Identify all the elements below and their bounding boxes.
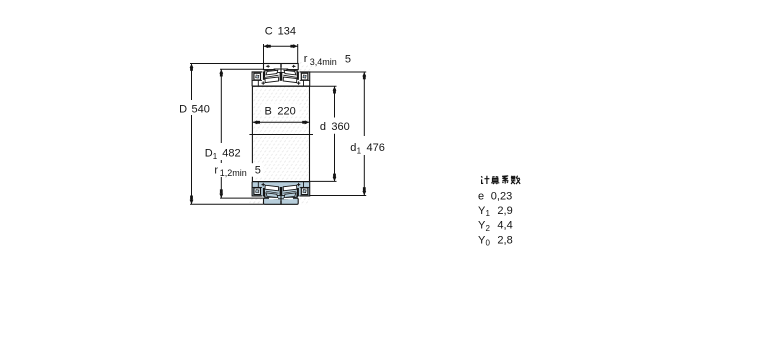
char xi bbox=[502, 176, 508, 184]
center rib bbox=[274, 69, 287, 72]
lube hole bbox=[280, 63, 281, 67]
watermark hatch (bottom-left pocket) bbox=[250, 199, 264, 204]
svg-text:540: 540 bbox=[192, 103, 210, 115]
plus mark left bbox=[262, 81, 265, 84]
center rib bottom bbox=[274, 195, 287, 198]
svg-text:2,8: 2,8 bbox=[497, 234, 512, 246]
svg-text:1: 1 bbox=[486, 209, 491, 218]
cage wedge right bottom bbox=[296, 188, 299, 197]
label 5 (bottom) bbox=[248, 163, 264, 177]
D ext line bottom bbox=[190, 203, 264, 205]
C arrows bbox=[264, 44, 269, 48]
label r 3,4min bbox=[303, 52, 353, 65]
cage mid line right bbox=[283, 75, 297, 77]
C dim line bbox=[264, 45, 298, 47]
d dim line bbox=[334, 86, 336, 117]
svg-text:0: 0 bbox=[486, 239, 491, 248]
bore bottom line bbox=[252, 181, 310, 183]
B dim line bbox=[253, 121, 310, 123]
d1 arrows bbox=[362, 72, 366, 77]
D1 ext line top bbox=[220, 68, 264, 70]
svg-text:B: B bbox=[265, 105, 272, 117]
svg-text:220: 220 bbox=[277, 105, 295, 117]
d1 dim line bbox=[363, 72, 365, 136]
svg-text:360: 360 bbox=[331, 121, 349, 133]
section silhouette white bbox=[252, 64, 309, 87]
lube hole bottom bbox=[280, 201, 281, 205]
char ji bbox=[481, 176, 489, 184]
D1 ext line bottom bbox=[220, 197, 263, 199]
d1 ext line bottom bbox=[310, 195, 367, 197]
d ext line bottom bbox=[310, 180, 337, 182]
header 计算系数 (drawn strokes) bbox=[481, 176, 520, 185]
svg-text:0,23: 0,23 bbox=[491, 190, 512, 202]
svg-text:r: r bbox=[304, 53, 308, 65]
svg-text:1,2min: 1,2min bbox=[220, 168, 247, 178]
svg-text:D: D bbox=[205, 148, 213, 160]
svg-text:5: 5 bbox=[255, 165, 261, 177]
plus mark left bottom bbox=[262, 183, 265, 186]
cage wedge left bottom bbox=[263, 188, 266, 197]
side box right bottom bbox=[300, 182, 310, 196]
plus mark right bbox=[297, 81, 300, 84]
cage mid line left bbox=[265, 75, 279, 77]
svg-text:D: D bbox=[179, 103, 187, 115]
white dash band bbox=[269, 198, 293, 200]
label D1 482 bbox=[203, 144, 243, 161]
B arrows bbox=[253, 120, 258, 124]
outer ring bbox=[264, 64, 299, 70]
svg-text:3,4min: 3,4min bbox=[310, 57, 337, 67]
D1 arrows bbox=[219, 69, 223, 74]
C ext line left bbox=[263, 44, 265, 64]
center cage bar bbox=[280, 72, 283, 80]
side box left bottom bbox=[252, 182, 262, 196]
section silhouette blue bbox=[252, 182, 309, 205]
ring raceway slants bottom bbox=[264, 197, 298, 199]
side box left bbox=[252, 72, 262, 86]
ring hatch arrow right bbox=[292, 65, 295, 68]
C ext line right bbox=[297, 44, 299, 64]
label D 540 bbox=[177, 100, 212, 115]
label d 360 bbox=[317, 118, 353, 133]
char suan bbox=[491, 177, 499, 185]
D1 dim line bbox=[220, 69, 222, 143]
upper roller left bbox=[266, 70, 278, 75]
center cage bar bottom bbox=[280, 187, 283, 195]
svg-text:134: 134 bbox=[278, 26, 296, 38]
lower roller left (mirror upper) bbox=[266, 193, 278, 198]
label r 1,2min bbox=[212, 163, 250, 178]
ring hatch arrow left bbox=[267, 65, 270, 68]
svg-text:2: 2 bbox=[486, 224, 491, 233]
cage mid line bottom bbox=[266, 191, 279, 193]
outer ring bottom bbox=[264, 198, 299, 204]
D ext line top bbox=[190, 63, 264, 65]
ring raceway slants bbox=[264, 69, 298, 71]
svg-text:476: 476 bbox=[367, 142, 385, 154]
cage wedge right bbox=[296, 71, 299, 80]
D arrows bbox=[190, 64, 194, 69]
side box right bbox=[300, 72, 310, 86]
centerline bbox=[249, 134, 313, 136]
svg-text:1: 1 bbox=[357, 146, 362, 155]
svg-text:482: 482 bbox=[222, 148, 240, 160]
char shu bbox=[511, 176, 520, 184]
upper roller right bbox=[284, 70, 296, 75]
lube line through rib bbox=[280, 67, 282, 72]
label B 220 bbox=[261, 104, 299, 118]
svg-text:e: e bbox=[478, 190, 484, 202]
svg-text:d: d bbox=[320, 121, 326, 133]
bore side edges bbox=[251, 86, 253, 181]
svg-text:d: d bbox=[350, 142, 356, 154]
svg-text:r: r bbox=[214, 164, 218, 176]
lower roller right bbox=[283, 77, 297, 83]
svg-text:1: 1 bbox=[213, 152, 218, 161]
d ext line top bbox=[310, 85, 337, 87]
watermark hatch (top-right sliver) bbox=[299, 62, 313, 72]
watermark hatch (main column) bbox=[252, 72, 309, 205]
svg-text:2,9: 2,9 bbox=[497, 205, 512, 217]
label d1 476 bbox=[348, 139, 388, 155]
svg-text:C: C bbox=[265, 26, 273, 38]
d1 ext line top bbox=[310, 71, 366, 73]
lube line through rib bottom bbox=[280, 195, 282, 200]
white rollers bottom bbox=[265, 185, 279, 191]
bore top line bbox=[252, 85, 310, 87]
d arrows bbox=[333, 86, 337, 91]
lower roller left bbox=[265, 77, 279, 83]
D dim line bbox=[191, 64, 193, 101]
cage wedge left bbox=[263, 71, 266, 80]
svg-text:5: 5 bbox=[345, 54, 351, 66]
svg-text:4,4: 4,4 bbox=[497, 220, 512, 232]
plus mark right bottom bbox=[297, 183, 300, 186]
